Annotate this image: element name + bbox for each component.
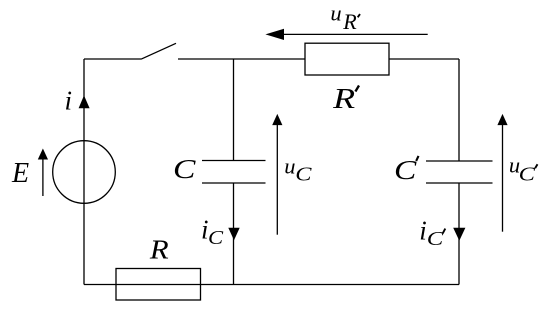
current arrowhead i_C (down, on middle wire) xyxy=(228,228,239,240)
emf arrow E (up) xyxy=(42,158,44,196)
svg-text:E: E xyxy=(11,158,29,189)
switch S (open blade) xyxy=(141,43,176,59)
svg-text:C: C xyxy=(427,228,444,250)
capacitor C bottom plate xyxy=(202,182,266,184)
wire: middle vertical lower (C to bottom wire) xyxy=(233,183,235,285)
svg-text:i: i xyxy=(65,86,73,116)
capacitor C' bottom plate xyxy=(426,182,493,184)
voltage arrow u_C' (up) xyxy=(502,124,504,232)
svg-text:C: C xyxy=(173,153,196,184)
svg-text:u: u xyxy=(284,154,295,179)
wire: left vertical branch xyxy=(83,59,85,285)
svg-text:R: R xyxy=(332,84,355,115)
resistor R' box xyxy=(305,43,389,75)
svg-text:C: C xyxy=(295,163,312,185)
voltage arrow u_R' (left) xyxy=(278,33,428,35)
svg-text:C: C xyxy=(208,227,223,249)
wire: R' right side to right corner xyxy=(389,58,459,60)
current arrow i (on left wire, up) xyxy=(79,95,90,108)
source E (circle) xyxy=(53,141,116,204)
wire: right vertical lower (C' to bottom wire) xyxy=(458,183,460,285)
capacitor C top plate xyxy=(202,160,266,162)
current arrowhead i_C' (down, on right wire) xyxy=(453,228,465,241)
svg-text:i: i xyxy=(419,215,427,245)
wire: switch right contact to node A xyxy=(178,58,305,60)
svg-text:R: R xyxy=(149,233,169,264)
resistor R box xyxy=(116,269,201,301)
voltage arrow u_C (up) xyxy=(276,124,278,235)
svg-text:C: C xyxy=(394,154,417,185)
wire: bottom horizontal xyxy=(84,284,459,286)
wire: right vertical upper (to capacitor C') xyxy=(458,59,460,161)
wire: middle vertical upper (node A to capacitor C) xyxy=(233,59,235,161)
svg-text:R: R xyxy=(342,9,357,34)
svg-text:C: C xyxy=(519,164,536,186)
wire: top-left horizontal to switch xyxy=(84,58,141,60)
capacitor C' top plate xyxy=(426,160,493,162)
svg-text:u: u xyxy=(330,1,341,26)
